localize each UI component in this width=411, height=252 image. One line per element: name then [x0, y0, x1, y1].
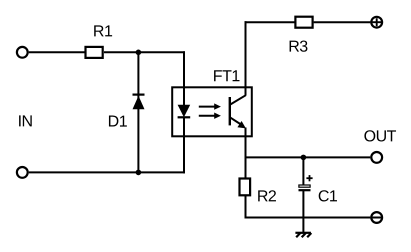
node junction at D1 bottom — [136, 170, 142, 176]
phototransistor in FT1 — [230, 95, 246, 128]
optocoupler FT1 body — [172, 87, 252, 136]
wire collector lead up — [245, 21, 247, 95]
wire bottom IN to LED corner — [29, 171, 185, 173]
wire minus row — [245, 217, 371, 219]
resistor R3 — [295, 17, 312, 28]
terminal OUT — [371, 152, 382, 163]
resistor R1 — [86, 47, 103, 58]
wire emitter lead down — [245, 128, 247, 178]
LED inside FT1 — [178, 105, 191, 119]
wire R2 bottom to minus row — [245, 196, 247, 219]
svg-text:C1: C1 — [318, 188, 338, 205]
terminal minus — [371, 212, 382, 223]
terminal IN top — [17, 47, 28, 58]
coupling arrow 1 — [199, 103, 221, 109]
coupling arrow 2 — [199, 113, 221, 119]
wire top IN to R1 — [29, 51, 85, 53]
wire C1 top lead — [302, 157, 304, 184]
svg-text:IN: IN — [18, 113, 33, 130]
node junction at R1/D1 — [136, 50, 142, 56]
terminal plus — [371, 17, 382, 28]
svg-text:R3: R3 — [288, 39, 308, 56]
ground — [295, 233, 311, 238]
terminal IN bottom — [17, 167, 28, 178]
capacitor C1 — [299, 175, 313, 190]
wire out row — [246, 156, 371, 158]
diode D1 — [133, 94, 145, 110]
wire D1 branch — [137, 52, 139, 172]
svg-text:R1: R1 — [93, 23, 113, 40]
svg-text:FT1: FT1 — [213, 68, 241, 85]
svg-text:R2: R2 — [257, 188, 277, 205]
svg-text:OUT: OUT — [364, 128, 397, 145]
wire R3 to plus terminal — [314, 21, 371, 23]
node junction at C1 top — [301, 155, 307, 161]
svg-text:D1: D1 — [108, 114, 128, 131]
wire LED cathode lead — [183, 117, 185, 173]
wire LED anode lead — [183, 51, 185, 105]
resistor R2 — [240, 179, 251, 196]
wire top rail to R3 — [245, 21, 296, 23]
wire C1 bottom lead to ground — [302, 191, 304, 233]
wire R1 to LED corner — [104, 51, 185, 53]
